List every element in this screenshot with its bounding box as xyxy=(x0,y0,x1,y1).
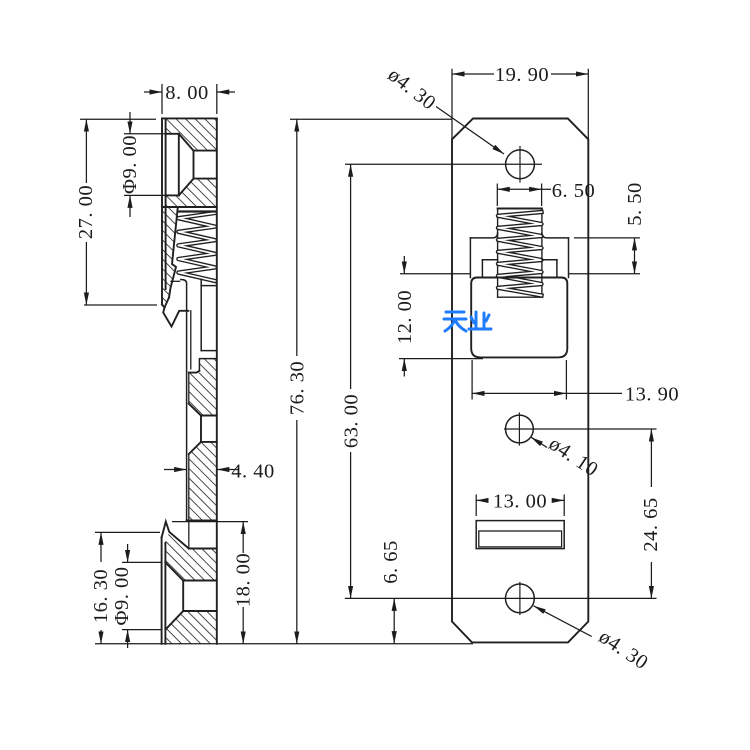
svg-text:76. 30: 76. 30 xyxy=(287,361,309,415)
left view spring cavity wall hatch xyxy=(162,207,178,308)
dim 8.00 xyxy=(144,84,235,114)
svg-text:5. 50: 5. 50 xyxy=(624,182,646,226)
dim 24.65 xyxy=(504,429,657,598)
leader phi4.30 bottom xyxy=(534,606,592,637)
svg-text:ø4. 30: ø4. 30 xyxy=(384,64,440,115)
left view top block outline xyxy=(162,118,217,643)
svg-text:ø4. 10: ø4. 10 xyxy=(545,433,602,482)
bottom slot outer xyxy=(476,521,564,549)
left view spring cavity wall outline xyxy=(162,207,178,308)
front spring coil xyxy=(498,212,542,296)
svg-text:16. 30: 16. 30 xyxy=(90,569,112,623)
svg-text:24. 65: 24. 65 xyxy=(640,497,662,551)
left view top countersink bore outline xyxy=(166,134,217,196)
left view spring (section) xyxy=(178,212,215,282)
dim 4.40 xyxy=(164,469,239,471)
dim 12.00 xyxy=(399,256,483,377)
svg-text:27. 00: 27. 00 xyxy=(75,185,97,239)
dim 5.50 xyxy=(569,238,641,274)
svg-text:12. 00: 12. 00 xyxy=(394,290,416,344)
right view plate outline xyxy=(452,119,588,643)
dim 6.65 xyxy=(393,598,395,643)
dim phi9.00 bottom xyxy=(122,544,162,648)
left view latch hook xyxy=(163,308,188,327)
left view middle countersink outline xyxy=(187,404,217,521)
svg-text:4. 40: 4. 40 xyxy=(231,461,275,483)
slider collar xyxy=(482,260,557,278)
top hole xyxy=(506,147,535,183)
svg-text:13. 00: 13. 00 xyxy=(493,490,547,512)
leader phi4.10 xyxy=(531,437,547,447)
left view slider edges xyxy=(171,279,217,548)
svg-text:6. 65: 6. 65 xyxy=(380,540,402,584)
svg-text:13. 90: 13. 90 xyxy=(625,383,679,405)
dim 16.30 xyxy=(95,532,160,643)
svg-text:8. 00: 8. 00 xyxy=(165,82,209,104)
dim 18.00 xyxy=(172,522,248,644)
baseline bottom xyxy=(95,643,473,645)
left view strip hatch upper xyxy=(189,359,217,416)
svg-text:18. 00: 18. 00 xyxy=(233,553,255,607)
bottom hole xyxy=(506,583,535,615)
watermark tianye xyxy=(444,312,491,331)
middle hole xyxy=(506,413,534,445)
dim 13.00 xyxy=(476,495,564,517)
latch window outline xyxy=(470,233,568,278)
dim 6.50 xyxy=(497,184,551,207)
svg-text:19. 90: 19. 90 xyxy=(495,64,549,86)
latch button xyxy=(471,278,567,358)
dim 27.00 xyxy=(80,119,157,305)
left view flange hatch upper xyxy=(165,532,216,581)
svg-text:6. 50: 6. 50 xyxy=(552,180,596,202)
spring channel xyxy=(498,209,542,298)
svg-text:63. 00: 63. 00 xyxy=(341,394,363,448)
dim 19.90 xyxy=(452,69,588,140)
left view top countersink hatch upper xyxy=(166,118,217,150)
left view strip hatch lower xyxy=(189,442,217,521)
dim 76.30 xyxy=(290,119,452,644)
left view bottom flange outline xyxy=(162,522,217,644)
leader phi4.30 top xyxy=(436,107,504,155)
dim 63.00 xyxy=(345,164,657,598)
dim phi9.00 top xyxy=(124,112,166,217)
dim 13.90 xyxy=(472,360,622,400)
left view top countersink hatch lower xyxy=(166,179,217,207)
left view flange hatch lower xyxy=(165,611,216,644)
svg-text:Φ9. 00: Φ9. 00 xyxy=(119,135,141,194)
svg-text:ø4. 30: ø4. 30 xyxy=(595,626,652,675)
svg-text:Φ9. 00: Φ9. 00 xyxy=(111,567,133,626)
bottom slot inner xyxy=(479,531,562,547)
